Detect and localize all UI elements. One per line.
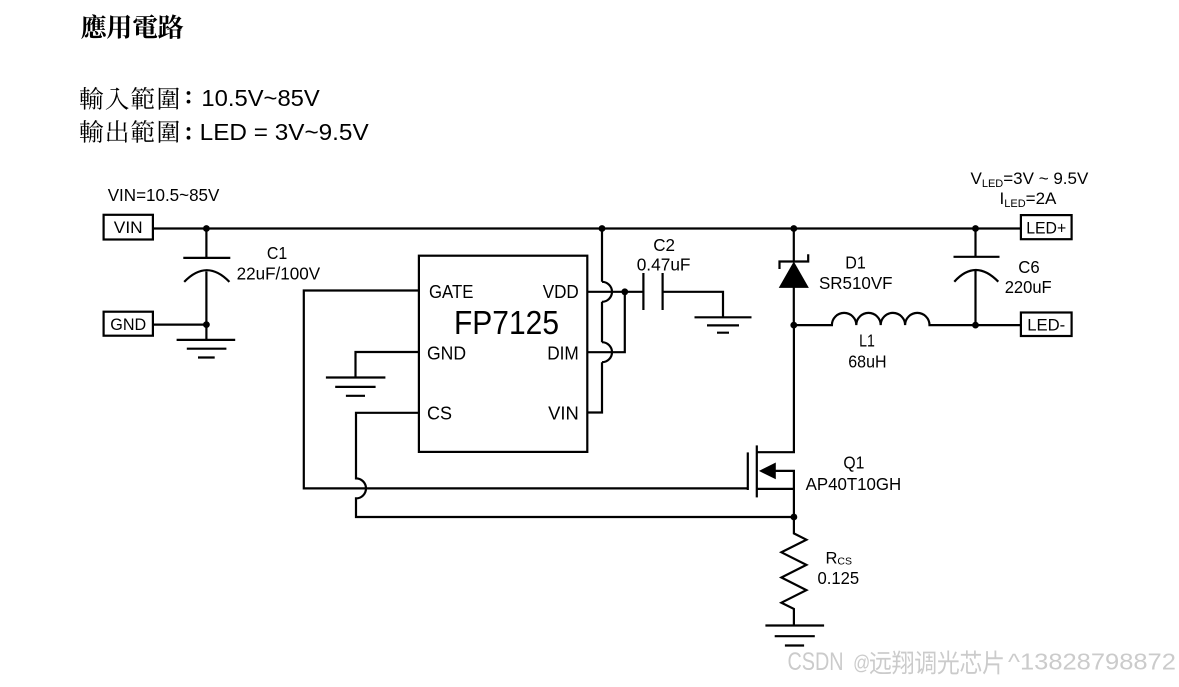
inductor L1 [794, 313, 1021, 325]
svg-text:VIN=10.5~85V: VIN=10.5~85V [108, 185, 220, 205]
transistor Q1 source segment [757, 488, 794, 490]
svg-text:CS: CS [427, 403, 452, 424]
capacitor C6 [974, 229, 976, 257]
svg-text:GATE: GATE [429, 281, 473, 302]
svg-text:@: @ [853, 653, 870, 675]
diode D1 schottky [793, 229, 795, 263]
svg-text:0.125: 0.125 [818, 568, 860, 588]
capacitor C2 [625, 273, 723, 317]
title 應用電路 [81, 14, 183, 39]
svg-text:22uF/100V: 22uF/100V [237, 263, 321, 283]
fullwidth colon line1 [187, 91, 191, 95]
svg-text:L1: L1 [859, 330, 875, 350]
svg-text:0.47uF: 0.47uF [637, 254, 691, 274]
junction node SW diode-inductor [790, 322, 797, 329]
wire CS to sense node with hop over gate wire [356, 413, 794, 517]
wire GATE to Q1 gate [304, 291, 748, 489]
svg-text:C6: C6 [1018, 257, 1040, 277]
ground symbol RCS [765, 626, 824, 646]
svg-text:LED = 3V~9.5V: LED = 3V~9.5V [200, 119, 369, 145]
wire DIM pin up to VDD node [587, 292, 625, 352]
ground symbol input [177, 325, 236, 358]
transistor Q1 body arrow [760, 463, 775, 478]
fullwidth colon line2 [187, 127, 191, 131]
svg-text:GND: GND [427, 343, 466, 364]
svg-text:AP40T10GH: AP40T10GH [806, 474, 902, 494]
wire GND box to C1 bottom [153, 324, 207, 326]
svg-text:SR510VF: SR510VF [819, 273, 893, 293]
svg-text:Q1: Q1 [843, 452, 864, 472]
terminal GND box [104, 312, 153, 336]
ground symbol C2 [695, 317, 752, 332]
text line 輸入範圍 [80, 87, 179, 110]
svg-text:GND: GND [110, 315, 146, 334]
svg-text:LED+: LED+ [1026, 218, 1066, 237]
transistor Q1 mosfet drain [757, 325, 794, 452]
terminal LED- box [1021, 313, 1072, 337]
svg-text:^13828798872: ^13828798872 [1008, 648, 1176, 674]
svg-text:CSDN: CSDN [788, 648, 844, 676]
terminal VIN box [104, 215, 153, 240]
svg-text:68uH: 68uH [848, 352, 886, 372]
wire top rail VIN to LED+ [153, 227, 1021, 229]
text line 輸出範圍 [80, 120, 179, 143]
svg-text:DIM: DIM [547, 343, 579, 364]
resistor RCS [781, 517, 806, 626]
capacitor C1 [205, 229, 207, 258]
junction node C6 top [972, 225, 979, 232]
watermark cjk 远翔调光芯片 [870, 650, 1003, 674]
svg-text:C1: C1 [267, 243, 287, 263]
wire IC GND down [356, 352, 419, 378]
ground symbol IC GND [326, 378, 386, 396]
junction node C1 top [203, 225, 210, 232]
wire VIN pin riser with hops to top rail [587, 229, 602, 413]
junction node CS sense [791, 514, 798, 521]
junction node VDD rail [599, 225, 606, 232]
svg-text:D1: D1 [845, 252, 866, 272]
svg-text:220uF: 220uF [1005, 277, 1052, 297]
junction node D1 cathode rail [790, 225, 797, 232]
wire VDD pin to C2 node [587, 291, 625, 293]
svg-text:VDD: VDD [543, 281, 579, 302]
svg-text:FP7125: FP7125 [454, 304, 559, 341]
transistor Q1 channel bar [756, 445, 758, 497]
svg-text:VIN: VIN [548, 403, 579, 424]
junction node C1 bottom [203, 321, 210, 328]
svg-text:LED-: LED- [1027, 316, 1065, 335]
svg-text:10.5V~85V: 10.5V~85V [201, 85, 320, 111]
terminal LED+ box [1021, 215, 1072, 239]
junction node C6 bottom [972, 322, 979, 329]
svg-text:C2: C2 [653, 235, 675, 255]
svg-text:VIN: VIN [114, 218, 143, 237]
op-amp U1 FP7125 IC box [419, 256, 587, 452]
transistor Q1 gate bar [747, 452, 749, 490]
transistor Q1 body segment [775, 471, 794, 517]
junction node VDD/C2/DIM [621, 288, 628, 295]
